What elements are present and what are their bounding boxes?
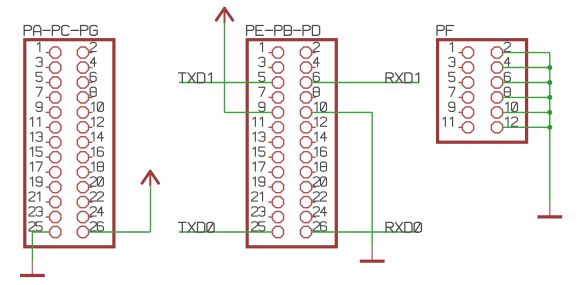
wire pin10 PF to GND bus: [503, 111, 550, 113]
pin 15 of PA-PC-PG: [30, 147, 61, 163]
wire net TXD1: [179, 82, 272, 84]
pin 23 of PA-PC-PG: [29, 207, 61, 223]
wire pin8 PF to GND bus: [503, 96, 550, 98]
pin 2 of PE-PB-PD: [300, 42, 319, 58]
connector PA-PC-PG name label: [24, 26, 97, 36]
pin 24 of PE-PB-PD: [300, 207, 326, 223]
pin 21 of PE-PB-PD: [252, 192, 284, 208]
wire net TXD0: [179, 231, 272, 233]
pin 5 of PA-PC-PG: [36, 72, 61, 88]
pin 13 of PA-PC-PG: [30, 132, 61, 148]
ground GND below PA-PC-PG: [20, 261, 45, 276]
pin 19 of PA-PC-PG: [30, 177, 61, 193]
pin 14 of PE-PB-PD: [300, 132, 326, 148]
pin 9 of PA-PC-PG: [36, 102, 61, 118]
connector PF name label: [437, 26, 454, 36]
supply VCC symbol left: [142, 171, 159, 186]
pin 22 of PA-PC-PG: [77, 192, 103, 208]
pin 18 of PA-PC-PG: [77, 162, 103, 178]
wire pin12 PF to GND bus: [503, 126, 550, 128]
pin 1 of PF: [450, 42, 473, 58]
junction dot PF row 4: [547, 95, 552, 100]
pin 23 of PE-PB-PD: [252, 207, 284, 223]
pin 1 of PA-PC-PG: [37, 42, 60, 58]
wire VCC drop middle: [224, 23, 226, 112]
net label TXD0: [179, 222, 214, 232]
pin 20 of PA-PC-PG: [77, 177, 103, 193]
pin 16 of PA-PC-PG: [77, 147, 103, 163]
pin 11 of PF: [443, 117, 474, 133]
junction dot PF row 2: [547, 65, 552, 70]
ground GND below PE-PB-PD: [360, 247, 385, 262]
wire VCC to pin9 PE-PB-PD: [225, 111, 272, 113]
wire pin10 PE-PB-PD to GND: [312, 111, 372, 113]
pin 8 of PA-PC-PG: [77, 87, 96, 103]
junction dot PF row 3: [547, 80, 552, 85]
pin 26 of PE-PB-PD: [300, 222, 326, 238]
pin 9 of PE-PB-PD: [259, 102, 284, 118]
pin 6 of PF: [491, 72, 510, 88]
pin 17 of PE-PB-PD: [253, 162, 284, 178]
pin 7 of PF: [449, 87, 474, 103]
connector PE-PB-PD name label: [247, 26, 320, 36]
pin 11 of PA-PC-PG: [30, 117, 61, 133]
connector PA-PC-PG outline: [25, 40, 114, 247]
wire pin26 PA-PC-PG to VCC: [89, 231, 151, 233]
wire VCC riser left: [150, 187, 152, 232]
pin 19 of PE-PB-PD: [253, 177, 284, 193]
connector PE-PB-PD outline: [247, 40, 336, 247]
pin 14 of PA-PC-PG: [77, 132, 103, 148]
wire pin4 PF to GND bus: [503, 67, 550, 69]
pin 6 of PE-PB-PD: [300, 72, 319, 88]
pin 3 of PA-PC-PG: [36, 57, 61, 73]
pin 4 of PF: [491, 57, 510, 73]
wire pin25 PA-PC-PG to GND: [32, 231, 49, 233]
pin 2 of PA-PC-PG: [77, 42, 96, 58]
pin 12 of PE-PB-PD: [300, 117, 326, 133]
pin 3 of PE-PB-PD: [259, 57, 284, 73]
junction dot PF row 5: [547, 110, 552, 115]
wire net RXD0: [312, 231, 418, 233]
wire GND riser left: [31, 232, 33, 261]
pin 10 of PE-PB-PD: [300, 102, 326, 118]
pin 3 of PF: [449, 57, 474, 73]
pin 4 of PA-PC-PG: [77, 57, 96, 73]
pin 18 of PE-PB-PD: [300, 162, 326, 178]
pin 8 of PF: [491, 87, 510, 103]
pin 15 of PE-PB-PD: [253, 147, 284, 163]
pin 24 of PA-PC-PG: [77, 207, 103, 223]
net label RXD1: [386, 73, 419, 83]
connector PF outline: [438, 40, 527, 143]
pin 9 of PF: [449, 102, 474, 118]
pin 25 of PA-PC-PG: [29, 222, 61, 238]
pin 11 of PE-PB-PD: [253, 117, 284, 133]
pin 6 of PA-PC-PG: [77, 72, 96, 88]
wire GND bus vertical PF: [549, 53, 551, 203]
pin 22 of PE-PB-PD: [300, 192, 326, 208]
pin 10 of PF: [491, 102, 517, 118]
wire GND riser middle: [371, 112, 373, 246]
pin 25 of PE-PB-PD: [252, 222, 284, 238]
ground GND below PF: [537, 202, 562, 217]
pin 10 of PA-PC-PG: [77, 102, 103, 118]
pin 12 of PA-PC-PG: [77, 117, 103, 133]
pin 12 of PF: [491, 117, 517, 133]
pin 7 of PE-PB-PD: [259, 87, 284, 103]
supply VCC symbol middle: [216, 8, 233, 23]
wire net RXD1: [312, 82, 418, 84]
pin 20 of PE-PB-PD: [300, 177, 326, 193]
wire pin2 PF to GND bus: [503, 52, 550, 54]
pin 7 of PA-PC-PG: [36, 87, 61, 103]
pin 13 of PE-PB-PD: [253, 132, 284, 148]
pin 1 of PE-PB-PD: [260, 42, 283, 58]
pin 4 of PE-PB-PD: [300, 57, 319, 73]
net label RXD0: [386, 222, 421, 232]
pin 5 of PF: [449, 72, 474, 88]
junction dot PF row 6: [547, 125, 552, 130]
pin 21 of PA-PC-PG: [29, 192, 61, 208]
wire pin6 PF to GND bus: [503, 82, 550, 84]
pin 5 of PE-PB-PD: [259, 72, 284, 88]
pin 26 of PA-PC-PG: [77, 222, 103, 238]
pin 8 of PE-PB-PD: [300, 87, 319, 103]
net label TXD1: [179, 73, 212, 83]
pin 16 of PE-PB-PD: [300, 147, 326, 163]
pin 2 of PF: [491, 42, 510, 58]
pin 17 of PA-PC-PG: [30, 162, 61, 178]
